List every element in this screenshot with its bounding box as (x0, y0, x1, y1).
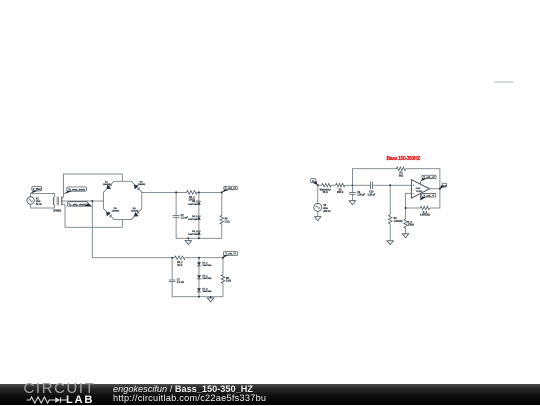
zener diode D5_1 (188, 201, 201, 206)
ground C9 (349, 194, 355, 204)
ground upper network (185, 237, 191, 244)
resistor R5_2 (175, 256, 186, 267)
resistor R2 (396, 167, 405, 177)
resistor R8 (221, 275, 231, 284)
node junction (91, 200, 93, 202)
wire bridge right to upper network (142, 191, 187, 193)
wire lower feedback (406, 207, 421, 209)
wire feedback top (352, 169, 396, 185)
resistor Waveform (320, 183, 331, 194)
resistor R_2 (420, 206, 430, 216)
resistor R_3 (404, 219, 414, 228)
node flag Out (440, 183, 447, 189)
node flag V_out_+V upper (222, 186, 237, 192)
bridge octagon body (104, 181, 142, 219)
wire upper bottom rail (176, 237, 222, 239)
transformer XFMR1 (53, 197, 62, 213)
wire to output node (197, 191, 222, 193)
node flag In (311, 179, 318, 186)
capacitor C9 (349, 184, 366, 196)
node flag V_out_-V op-amp (420, 194, 436, 201)
wire primary loop (31, 193, 55, 208)
wire lower bottom rail (172, 296, 223, 298)
wire R4 branch (389, 185, 391, 215)
ground V3 (315, 211, 321, 220)
diode D2 (134, 181, 146, 190)
wire lower left branch (171, 258, 173, 280)
node flag To_step_down2 (67, 202, 92, 207)
wire negative rail feed (91, 201, 93, 258)
op-amp OA2 (411, 180, 429, 201)
zener diode D7_1 (197, 262, 212, 267)
wire secondary center tap to bridge left (61, 200, 104, 202)
node flag V_out_+V op-amp (420, 175, 436, 181)
voltage source V3 (314, 185, 332, 213)
resistor R5_1 (187, 191, 198, 202)
resistor R6 (220, 216, 230, 225)
resistor R1 (336, 183, 345, 194)
capacitor C5 (173, 215, 189, 220)
capacitor C10 (367, 182, 375, 197)
wire inverting input (406, 193, 412, 219)
diode D4 (131, 207, 140, 216)
gray dash decoration top right (494, 81, 513, 83)
wire upper middle branch (198, 192, 200, 238)
wire secondary bottom to bridge bottom (61, 205, 122, 227)
wire secondary top to bridge top (61, 174, 122, 197)
resistor R4 (388, 215, 402, 224)
wire lower middle branch (198, 258, 200, 297)
zener diode D5_2 (188, 216, 201, 221)
wire upper left branch (175, 192, 177, 215)
node flag V_out_-V lower (223, 252, 238, 258)
voltage source V1 (27, 197, 43, 206)
wire lower right branch (222, 258, 224, 275)
wire op-amp output (430, 188, 440, 190)
zener diode D7_2 (197, 275, 212, 280)
wire upper right branch (221, 192, 223, 215)
ground R4 (387, 224, 393, 245)
wire input node (318, 184, 322, 186)
zener diode D5_3 (188, 231, 201, 236)
zener diode D7_3 (197, 288, 212, 293)
node flag V_Wall (31, 186, 42, 193)
ground lower network (207, 296, 213, 302)
node flag To_step_down (64, 187, 87, 194)
footer bar (0, 384, 540, 405)
wire lower rail (92, 257, 174, 259)
ground R_3 (402, 228, 408, 238)
diode D1 (103, 181, 112, 189)
capacitor C7 (169, 279, 185, 284)
diode D3 (107, 208, 121, 217)
